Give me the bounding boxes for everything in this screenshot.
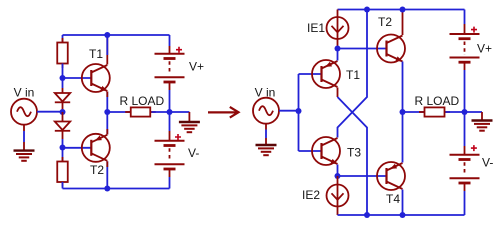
lead V+ battery out (left) [169, 82, 171, 90]
svg-text:V in: V in [255, 86, 276, 100]
lead ground stem (left V in) [23, 142, 25, 150]
lead ground stem (right V in) [265, 138, 267, 144]
junction V in node (right) [296, 108, 302, 114]
wire R LOAD to supply midpoint (left) [152, 111, 170, 113]
lead into V+ battery (right) [464, 24, 466, 34]
wire bottom rail (right circuit) [338, 214, 465, 216]
transistor T2 (NPN, right circuit) [377, 35, 405, 64]
junction node B (T3 emitter / IE2 / T4 base) [335, 173, 341, 179]
wire node to diode D1 [62, 78, 64, 88]
wire V in node vertical (right) [298, 74, 300, 151]
wire V in to ground (left) [23, 131, 25, 142]
wire T1 collector blue part [106, 35, 108, 55]
junction output node (left) [104, 109, 110, 115]
junction T2 base node (left) [60, 145, 66, 151]
lead T1 emitter [106, 92, 108, 98]
junction T4 collector / bottom rail [400, 212, 406, 218]
ground (right supply midpoint) [472, 121, 493, 131]
wire midpoint to ground (right) [465, 111, 483, 113]
wire D2 to T2 base node [62, 139, 64, 148]
wire R2 to bottom rail [62, 182, 64, 189]
lead IE2 bottom [337, 207, 339, 216]
resistor R2 (bias, lower left) [57, 157, 68, 187]
lead IE1 bottom [337, 39, 339, 49]
junction output node (right) [400, 109, 406, 115]
wire bottom rail (left circuit) [63, 188, 170, 190]
wire T2 collector to bottom rail [106, 161, 108, 188]
lead V- battery out (right) [464, 183, 466, 191]
wire node to R2 [62, 148, 64, 162]
wire T1 collector down (right) [337, 88, 339, 98]
wire T1 emitter to output node [106, 92, 108, 113]
svg-text:R LOAD: R LOAD [120, 94, 165, 108]
ground (right V in) [256, 145, 277, 155]
junction supply midpoint (left) [167, 109, 173, 115]
wire R1 to node (left) [62, 64, 64, 79]
transistor T4 (PNP, right circuit) [377, 162, 405, 190]
junction T2 collector / top rail [400, 7, 406, 13]
transistor T2 (PNP, left circuit) [82, 134, 110, 162]
wire to T1 base (right) [299, 73, 322, 75]
transistor T1 (PNP, right circuit) [312, 60, 340, 88]
wire V- battery to bottom rail (left) [169, 177, 171, 189]
wire V in output (left) [37, 111, 63, 113]
lead V+ battery out (right) [464, 62, 466, 70]
svg-text:T1: T1 [346, 68, 360, 82]
diode D2 (left) [55, 122, 70, 131]
current source IE1 [327, 17, 349, 39]
lead into V+ battery (left) [169, 46, 171, 54]
lead into D1 [62, 88, 64, 93]
wire to T3 base (right) [299, 150, 322, 152]
wire top rail (right circuit) [338, 9, 465, 11]
diode D1 (left) [55, 93, 70, 102]
svg-text:T3: T3 [347, 146, 361, 160]
svg-text:T4: T4 [386, 192, 400, 206]
resistor R1 (bias, upper left) [57, 38, 68, 68]
wire midpoint to V- battery (right) [464, 112, 466, 146]
wire node A to T2 base [338, 48, 387, 50]
battery V- (right) [450, 145, 480, 183]
wire T1 collector cross diagonal [338, 97, 368, 215]
lead V in bottom (left) [23, 125, 25, 131]
svg-text:IE1: IE1 [307, 21, 325, 35]
svg-text:T1: T1 [89, 47, 103, 61]
junction T2 collector / bottom rail [104, 186, 110, 192]
wire T1 emitter to node A (right) [337, 49, 339, 61]
arrow between circuits [208, 107, 239, 118]
wire V- battery to bottom rail (right) [464, 191, 466, 215]
wire T4 collector to bottom rail [402, 190, 404, 216]
battery V+ (right) [450, 27, 480, 63]
wire V in output (right) [279, 110, 299, 112]
lead D2 down [62, 131, 64, 139]
lead D1 to junction [62, 102, 64, 112]
lead ground stem (left) [188, 112, 190, 121]
svg-text:T2: T2 [90, 163, 104, 177]
ground (left supply midpoint) [179, 122, 200, 132]
junction T1 collector / top rail [104, 32, 110, 38]
junction V in / diodes node (left) [60, 109, 66, 115]
wire T4 emitter to output node [402, 112, 404, 163]
svg-text:V+: V+ [189, 60, 204, 74]
transistor T1 (NPN, left circuit) [82, 64, 110, 93]
voltage source V in (left circuit) [11, 99, 37, 125]
lead V in bottom (right) [265, 124, 267, 130]
resistor R LOAD (left) [125, 107, 156, 116]
wire top rail (left circuit) [63, 34, 170, 36]
lead into V- battery (left) [169, 131, 171, 141]
wire top rail to V+ battery (left) [169, 35, 171, 46]
svg-text:V-: V- [188, 146, 199, 160]
junction T1 base node (left) [60, 75, 66, 81]
junction node A (IE1 / T1 emitter / T2 base) [335, 46, 341, 52]
junction supply midpoint (right) [462, 109, 468, 115]
junction T1 collector / bottom rail [364, 212, 370, 218]
wire V+ rail cross diagonal to T3 collector [338, 10, 368, 138]
battery V+ (left) [155, 47, 185, 82]
junction top rail / T3 collector wire [364, 7, 370, 13]
svg-text:V+: V+ [477, 42, 492, 56]
svg-text:T2: T2 [378, 15, 392, 29]
ground (left V in) [14, 151, 35, 161]
current source IE2 [327, 185, 349, 207]
wire top rail to R1 [62, 35, 64, 44]
wire output to R LOAD (left) [107, 111, 130, 113]
wire midpoint to ground (left) [170, 111, 190, 113]
wire top rail to IE1 [337, 10, 339, 18]
wire T2 emitter to output node [106, 112, 108, 135]
wire output to R LOAD (right) [403, 111, 425, 113]
lead T2 emitter [106, 129, 108, 135]
wire T2 collector to top rail [402, 10, 404, 36]
wire T1 collector to top rail [106, 35, 108, 65]
wire V+ battery to midpoint (left) [169, 90, 171, 112]
svg-text:V-: V- [482, 156, 493, 170]
svg-text:IE2: IE2 [302, 188, 320, 202]
voltage source V in (right circuit) [253, 98, 279, 124]
battery V- (left) [155, 134, 185, 169]
resistor R LOAD (right) [419, 107, 450, 116]
wire midpoint to V- battery (left) [169, 112, 171, 131]
lead junction to D2 [62, 112, 64, 122]
lead ground stem (right) [481, 112, 483, 120]
wire node to T2 base [63, 147, 92, 149]
lead T2 collector [106, 161, 108, 167]
wire T2 emitter to output node (right) [402, 62, 404, 113]
wire top rail to V+ battery (right) [464, 10, 466, 25]
wire R LOAD to supply midpoint (right) [446, 111, 465, 113]
lead V- battery out (left) [169, 169, 171, 177]
svg-text:V in: V in [14, 86, 35, 100]
wire node to T1 base [63, 77, 92, 79]
wire V in to ground (right) [265, 130, 267, 139]
svg-text:R LOAD: R LOAD [415, 94, 460, 108]
lead into V- battery (right) [464, 146, 466, 155]
transistor T3 (NPN, right circuit) [312, 137, 340, 166]
wire V+ battery to midpoint (right) [464, 70, 466, 112]
wire T3 emitter to node B [337, 165, 339, 177]
wire node B to T4 base [338, 175, 387, 177]
lead IE2 top [337, 176, 339, 185]
